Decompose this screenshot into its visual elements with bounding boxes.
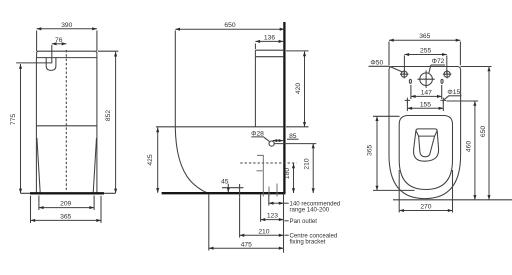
svg-text:155: 155 [420,102,431,109]
svg-text:365: 365 [419,33,430,40]
svg-text:650: 650 [224,22,235,29]
svg-text:390: 390 [61,22,72,29]
svg-text:475: 475 [241,241,252,248]
svg-text:Pan outlet: Pan outlet [290,218,318,225]
svg-text:852: 852 [105,110,112,121]
svg-text:425: 425 [147,154,154,165]
svg-text:650: 650 [480,126,487,137]
svg-text:460: 460 [466,141,473,152]
svg-text:Φ50: Φ50 [370,60,383,67]
svg-text:123: 123 [267,213,278,220]
svg-text:Φ15: Φ15 [447,89,460,96]
svg-text:255: 255 [420,48,431,55]
svg-text:420: 420 [295,83,302,94]
svg-text:365: 365 [367,144,374,155]
svg-text:76: 76 [55,37,63,44]
svg-text:209: 209 [60,201,71,208]
svg-text:45: 45 [221,178,229,185]
svg-text:210: 210 [304,158,311,169]
svg-text:85: 85 [289,133,297,140]
svg-text:range 140-200: range 140-200 [290,207,330,214]
svg-text:270: 270 [420,204,431,211]
svg-text:210: 210 [258,228,269,235]
svg-text:775: 775 [10,114,17,125]
svg-text:Φ72: Φ72 [432,58,445,65]
svg-text:147: 147 [421,90,432,97]
svg-text:365: 365 [60,213,71,220]
svg-text:fixing bracket: fixing bracket [290,239,326,246]
svg-text:136: 136 [264,35,275,42]
svg-text:180: 180 [284,168,291,179]
